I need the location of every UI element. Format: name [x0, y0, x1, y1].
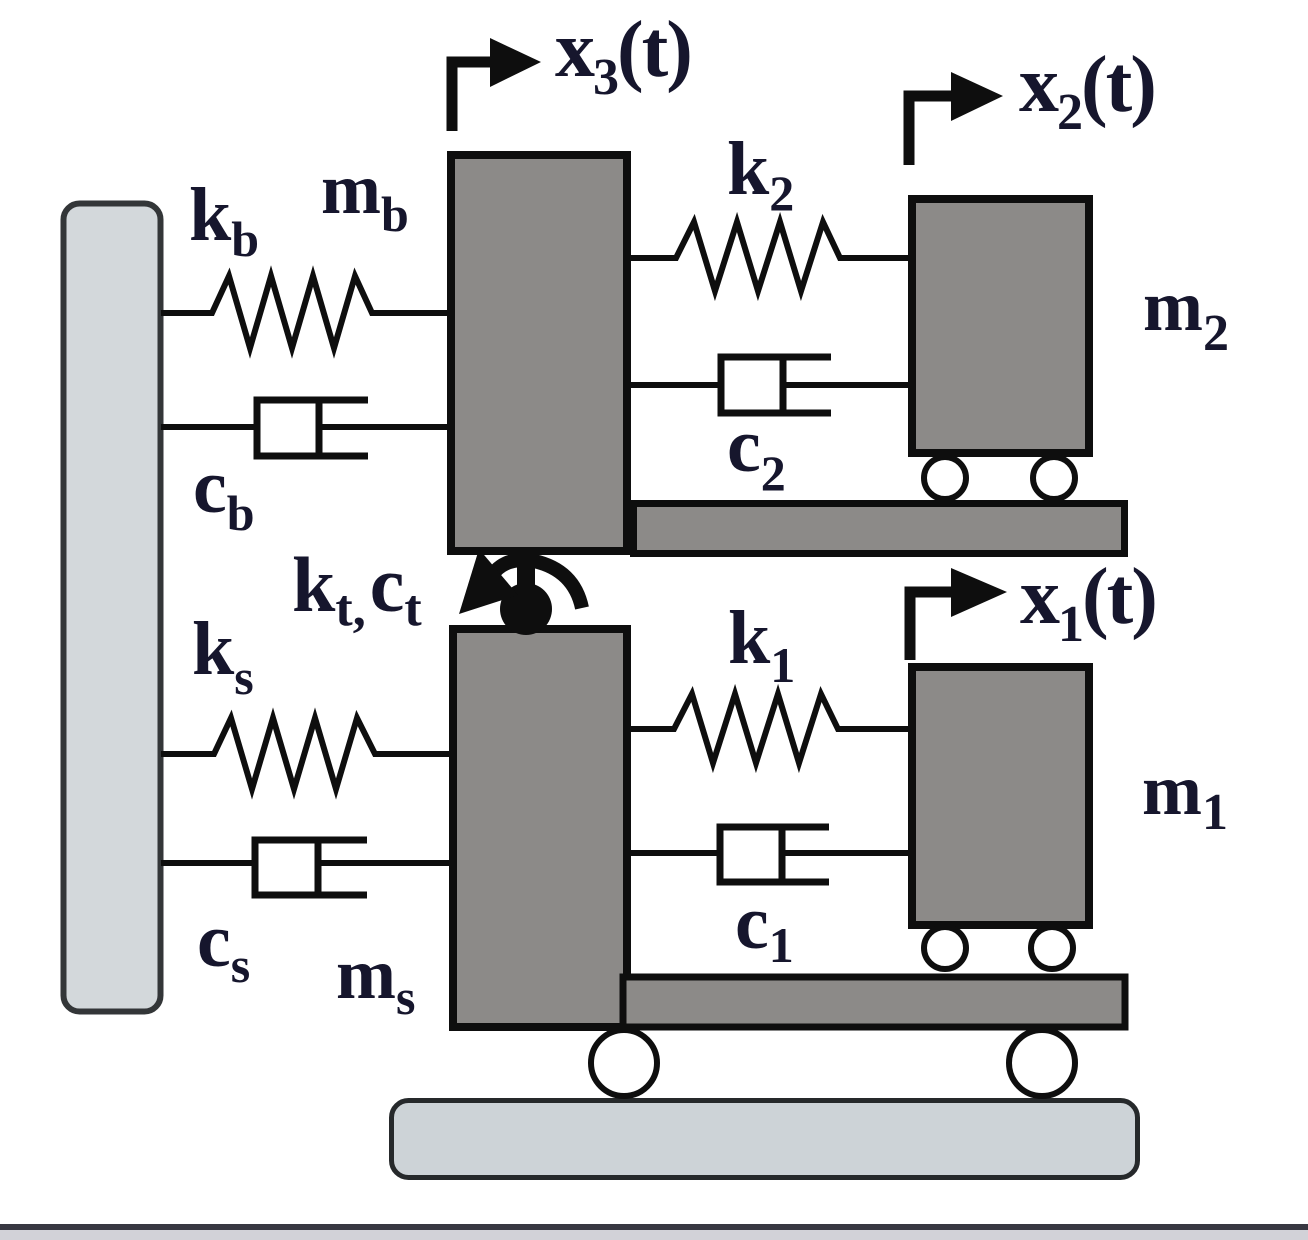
big wheel under m_s (right)	[1009, 1030, 1075, 1096]
mass m_1	[912, 667, 1089, 925]
contact stub between m_b and ball	[517, 550, 535, 588]
coordinate arrow x1	[910, 568, 1007, 660]
rolling-contact curved arrow	[459, 549, 582, 614]
wheel under m_1 (right)	[1031, 927, 1073, 969]
coordinate arrow x2	[909, 72, 1003, 165]
wheel under m_1 (left)	[924, 927, 966, 969]
wall (fixed frame, left)	[64, 204, 161, 1012]
contact ball k_t c_t	[500, 583, 552, 635]
wheel under m_2 (left)	[924, 457, 966, 499]
damper c_s (wall to m_s)	[161, 838, 453, 897]
svg-text:x3(t): x3(t)	[555, 6, 691, 106]
big wheel under m_s (left)	[591, 1030, 657, 1096]
spring k_s (wall to m_s)	[161, 718, 453, 789]
damper c_b (wall to m_b)	[161, 398, 451, 458]
wheel under m_2 (right)	[1033, 457, 1075, 499]
damper c_1 (m_s to m_1)	[627, 825, 912, 884]
svg-text:x1(t): x1(t)	[1020, 553, 1156, 653]
mass m_b	[451, 155, 627, 551]
spring k_b (wall to m_b)	[161, 276, 451, 348]
coordinate arrow x3	[452, 38, 541, 131]
spring k_1 (m_s to m_1)	[627, 694, 912, 763]
platform under m_1 (attached to m_s)	[623, 977, 1125, 1027]
mass m_s	[453, 629, 627, 1027]
svg-text:x2(t): x2(t)	[1019, 41, 1155, 141]
ground (base)	[392, 1101, 1138, 1178]
spring k_2 (m_b to m_2)	[627, 222, 912, 291]
platform under m_2 (attached to m_b)	[634, 504, 1125, 554]
damper c_2 (m_b to m_2)	[627, 355, 912, 415]
mass m_2	[912, 199, 1089, 453]
bottom rule	[0, 1227, 1308, 1240]
